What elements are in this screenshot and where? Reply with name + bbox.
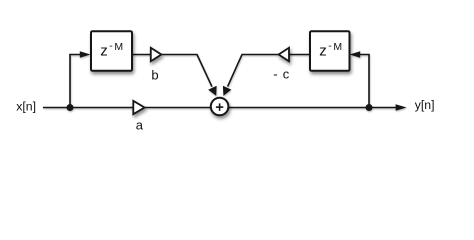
node: output junction dot: [366, 104, 373, 111]
svg-text:M: M: [114, 41, 123, 53]
gain b triangle: [151, 48, 162, 61]
svg-text:a: a: [136, 117, 144, 132]
delay block Z^-M (right): [310, 31, 350, 71]
plus sign in summer: [216, 103, 223, 110]
gain a triangle: [133, 101, 144, 114]
svg-text:x[n]: x[n]: [16, 99, 36, 113]
arrowhead at y[n]: [396, 104, 407, 111]
svg-text:-: -: [328, 40, 332, 52]
wire: gain b to corner then diagonal into summer: [161, 55, 212, 87]
wire: output node up and into right delay: [359, 55, 369, 108]
svg-text:z: z: [100, 43, 108, 60]
svg-text:b: b: [151, 67, 158, 82]
gain -c triangle (points left): [279, 48, 289, 61]
summer circle: [211, 98, 229, 116]
node: input junction dot: [67, 104, 74, 111]
svg-text:-: -: [109, 40, 113, 52]
wire: main line x[n] to y[n]: [43, 107, 397, 109]
svg-text:M: M: [333, 41, 342, 53]
wire: left delay output to gain b: [132, 54, 151, 56]
arrowhead into summer (left diagonal): [208, 86, 216, 96]
wire: input node up and into left delay: [70, 55, 81, 108]
svg-text:c: c: [283, 67, 290, 82]
svg-text:z: z: [319, 43, 327, 60]
arrowhead into right delay box: [350, 51, 361, 58]
wire: right delay output to gain -c: [289, 54, 310, 56]
delay block Z^-M (left): [91, 31, 132, 71]
svg-text:y[n]: y[n]: [415, 98, 435, 112]
arrowhead into left delay box: [80, 51, 91, 58]
arrowhead into summer (right diagonal): [223, 86, 231, 96]
svg-text:-: -: [273, 67, 277, 82]
wire: gain -c to corner then diagonal into summer: [228, 55, 279, 87]
